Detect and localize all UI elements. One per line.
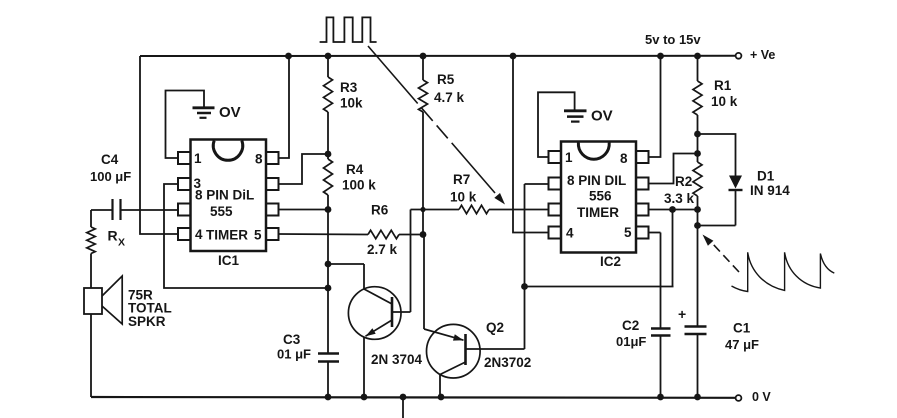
svg-text:IN 914: IN 914 bbox=[750, 183, 790, 198]
svg-text:5: 5 bbox=[624, 225, 632, 240]
svg-text:10k: 10k bbox=[340, 96, 363, 111]
svg-text:2N 3704: 2N 3704 bbox=[371, 352, 423, 367]
svg-text:10 k: 10 k bbox=[711, 94, 738, 109]
svg-text:TIMER: TIMER bbox=[206, 228, 248, 243]
svg-text:R4: R4 bbox=[346, 162, 364, 177]
svg-text:R6: R6 bbox=[371, 203, 389, 218]
svg-text:5v to 15v: 5v to 15v bbox=[645, 32, 701, 47]
svg-text:1: 1 bbox=[565, 150, 573, 165]
svg-text:8 PIN DiL: 8 PIN DiL bbox=[195, 188, 254, 203]
svg-text:47 μF: 47 μF bbox=[725, 337, 759, 352]
svg-text:R5: R5 bbox=[437, 72, 455, 87]
svg-text:C3: C3 bbox=[283, 332, 301, 347]
svg-text:R1: R1 bbox=[714, 78, 732, 93]
svg-text:3.3 k: 3.3 k bbox=[664, 191, 695, 206]
svg-text:R7: R7 bbox=[453, 172, 470, 187]
svg-text:01μF: 01μF bbox=[616, 334, 646, 349]
svg-text:10 k: 10 k bbox=[450, 190, 477, 205]
svg-text:X: X bbox=[118, 237, 125, 249]
svg-text:SPKR: SPKR bbox=[128, 314, 166, 329]
svg-text:IC2: IC2 bbox=[600, 254, 621, 269]
svg-text:C4: C4 bbox=[101, 152, 119, 167]
svg-text:01 μF: 01 μF bbox=[277, 347, 311, 362]
svg-text:2N3702: 2N3702 bbox=[484, 355, 531, 370]
svg-text:100 μF: 100 μF bbox=[90, 169, 131, 184]
svg-text:8: 8 bbox=[255, 152, 263, 167]
svg-text:OV: OV bbox=[591, 108, 613, 125]
svg-text:R: R bbox=[108, 228, 118, 244]
svg-text:8: 8 bbox=[620, 151, 628, 166]
svg-text:4: 4 bbox=[566, 226, 574, 241]
svg-text:+: + bbox=[678, 306, 686, 322]
svg-text:R3: R3 bbox=[340, 80, 358, 95]
svg-text:1: 1 bbox=[194, 151, 202, 166]
svg-text:555: 555 bbox=[210, 204, 233, 219]
svg-text:4.7 k: 4.7 k bbox=[434, 90, 465, 105]
svg-text:8 PIN DIL: 8 PIN DIL bbox=[567, 173, 626, 188]
svg-text:C2: C2 bbox=[622, 318, 639, 333]
svg-text:5: 5 bbox=[254, 228, 262, 243]
svg-text:100 k: 100 k bbox=[342, 178, 376, 193]
svg-text:C1: C1 bbox=[733, 321, 751, 336]
svg-text:556: 556 bbox=[589, 189, 612, 204]
svg-text:OV: OV bbox=[219, 104, 241, 121]
svg-text:IC1: IC1 bbox=[218, 253, 240, 268]
svg-text:D1: D1 bbox=[757, 169, 775, 184]
svg-text:R2: R2 bbox=[675, 174, 692, 189]
svg-text:2.7 k: 2.7 k bbox=[367, 242, 398, 257]
svg-text:4: 4 bbox=[195, 227, 203, 242]
svg-text:Q2: Q2 bbox=[486, 320, 504, 335]
svg-text:0 V: 0 V bbox=[752, 390, 771, 404]
svg-text:+ Ve: + Ve bbox=[750, 48, 775, 62]
svg-text:TIMER: TIMER bbox=[577, 205, 619, 220]
